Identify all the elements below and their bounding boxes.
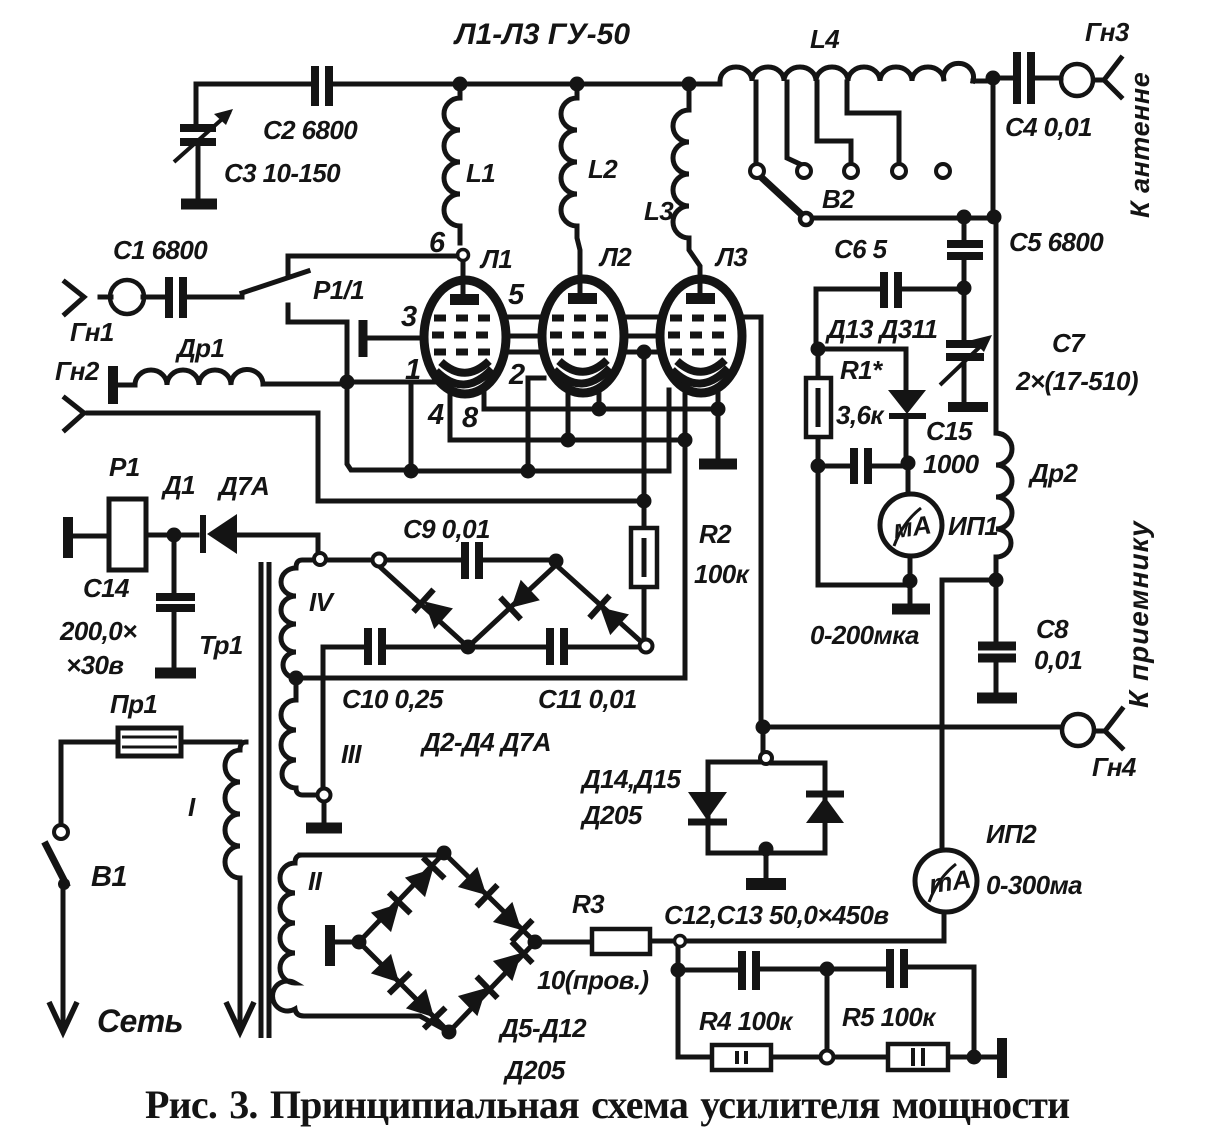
wire L2 pin4: [566, 390, 571, 440]
wire I winding top: [240, 742, 246, 750]
circle D14 box top: [760, 752, 772, 764]
node bridgeIV top right: [549, 554, 564, 569]
wire L4 tap4: [847, 82, 899, 164]
resistor R1: [806, 378, 831, 437]
connector Gn4: [1062, 714, 1094, 746]
wire L3 pin1: [667, 390, 672, 440]
svg-text:К приемнику: К приемнику: [1123, 520, 1154, 708]
transformer core: [261, 562, 269, 1038]
connector Gn1 circle: [110, 280, 144, 314]
capacitor C2: [315, 66, 329, 106]
svg-text:0-200мка: 0-200мка: [810, 620, 919, 650]
node y440 x685: [678, 433, 693, 448]
svg-text:К антенне: К антенне: [1125, 72, 1155, 218]
wire fuse row: [61, 740, 240, 745]
tube L2 envelope: [542, 279, 624, 393]
wire L2 pin8: [597, 390, 602, 409]
switch B2 contact 4: [892, 164, 906, 178]
tube L1 envelope: [424, 280, 506, 394]
wire R1 branch: [816, 349, 821, 466]
svg-text:С7: С7: [1052, 328, 1086, 358]
tube L3 envelope: [660, 279, 742, 393]
wire bridgeII TL arm: [359, 853, 444, 942]
node B2 line right: [987, 210, 1002, 225]
ground III winding: [306, 823, 342, 834]
svg-text:Д7А: Д7А: [217, 471, 269, 501]
wire Gn2 lower line: [88, 413, 318, 501]
svg-text:R5 100к: R5 100к: [842, 1002, 937, 1032]
terminal bridgeIV top left: [373, 554, 386, 567]
wire C12 row: [678, 967, 974, 970]
diode D1: [203, 514, 237, 554]
winding II: [273, 855, 304, 1016]
wire top anode bus: [196, 81, 993, 84]
meter IP2: [915, 850, 977, 912]
inductor L1: [444, 84, 460, 243]
svg-text:Д1: Д1: [161, 470, 195, 500]
inductor L2: [561, 84, 580, 294]
svg-text:R2: R2: [699, 519, 732, 549]
wire L3 cathode drop: [296, 390, 685, 678]
svg-text:II: II: [308, 866, 323, 896]
node C4 line top: [986, 71, 1001, 86]
svg-text:С14: С14: [83, 573, 130, 603]
wire D13 branch: [818, 349, 906, 462]
svg-text:0,01: 0,01: [1034, 645, 1082, 675]
wire R4 row: [678, 1055, 997, 1060]
node y471 x411: [404, 464, 419, 479]
wire D14 box: [708, 762, 825, 877]
svg-text:Др1: Др1: [175, 333, 224, 363]
wire C4 to Gn3: [993, 76, 1061, 81]
antenna fork Gn2: [65, 398, 84, 430]
svg-text:R3: R3: [572, 889, 605, 919]
wire L2 pin2: [528, 378, 544, 471]
grid terminal bar of L1: [359, 320, 368, 357]
wire D1 to bridge: [236, 535, 318, 553]
svg-text:С4 0,01: С4 0,01: [1005, 112, 1092, 142]
svg-text:С6 5: С6 5: [834, 234, 888, 264]
tube L3 grids: [668, 318, 734, 352]
svg-text:L2: L2: [588, 154, 618, 184]
capacitor C3 variable: [174, 109, 233, 204]
node R3 right: [675, 936, 686, 947]
svg-text:Р1/1: Р1/1: [313, 275, 364, 305]
wire L1 pin4: [450, 388, 685, 440]
node C12 left: [671, 963, 686, 978]
wire C8 branch: [994, 580, 999, 692]
svg-text:Л1-Л3 ГУ-50: Л1-Л3 ГУ-50: [453, 18, 630, 51]
terminal bar bridgeII left: [325, 925, 335, 966]
node top bus L3/L4: [682, 77, 697, 92]
wire bridgeIV slant 3: [556, 565, 646, 646]
wire bridgeII left terminal: [335, 940, 359, 945]
terminal IV top: [314, 553, 326, 565]
wire C10 left drop: [321, 647, 326, 786]
inductor Dr2: [996, 433, 1012, 580]
diode D3: [500, 579, 540, 619]
node bridgeII right: [528, 935, 543, 950]
terminal bar P1 left: [63, 517, 73, 558]
winding III: [281, 678, 317, 795]
tube L3 anode: [686, 293, 715, 304]
svg-text:Д13 Д311: Д13 Д311: [825, 314, 937, 344]
switch P1/1 arm: [242, 271, 308, 293]
antenna fork Gn3: [1094, 58, 1121, 97]
inductor L4: [720, 63, 974, 81]
node D14 box bottom: [759, 842, 774, 857]
svg-text:10(пров.): 10(пров.): [537, 965, 648, 995]
terminal bridgeIV bottom right: [640, 640, 653, 653]
svg-text:Л2: Л2: [598, 242, 632, 272]
diode D11: [457, 976, 497, 1016]
svg-text:Л3: Л3: [714, 242, 748, 272]
node bridgeII left: [352, 935, 367, 950]
svg-text:Л1: Л1: [479, 244, 512, 274]
svg-text:6: 6: [429, 227, 446, 259]
node Dr1 junction: [340, 375, 355, 390]
terminal bar Gn2: [108, 366, 118, 404]
svg-text:С5 6800: С5 6800: [1009, 227, 1104, 257]
ground IP1: [892, 604, 930, 615]
wire C6 left down: [814, 289, 819, 349]
node C15 right: [901, 456, 916, 471]
node B1 arm bottom: [58, 878, 70, 890]
resistor R4: [712, 1045, 771, 1070]
svg-text:Д205: Д205: [503, 1055, 566, 1085]
wire C3 branch: [196, 84, 198, 197]
wire grid bus row1 between tubes: [505, 315, 761, 320]
node bridgeIV bottom mid: [461, 640, 476, 655]
svg-text:Д2-Д4 Д7А: Д2-Д4 Д7А: [420, 727, 551, 757]
capacitor C14: [155, 597, 196, 673]
tube L2 grids: [550, 318, 616, 352]
svg-text:С9 0,01: С9 0,01: [403, 514, 490, 544]
wire grid row3 to R2: [318, 352, 644, 640]
wire grid input bar to tube L1: [368, 336, 424, 341]
connector Gn3: [1061, 64, 1093, 96]
svg-text:IV: IV: [309, 587, 336, 617]
node C6-C7: [957, 281, 972, 296]
wire grid bus row2 between tubes: [505, 334, 661, 339]
wire C7 branch: [962, 288, 967, 403]
svg-text:В1: В1: [91, 861, 127, 893]
capacitor C15: [854, 448, 868, 484]
wire P1/1 stub down: [288, 305, 347, 322]
winding I: [225, 750, 240, 1026]
diode D12: [492, 941, 532, 981]
svg-text:Р1: Р1: [109, 452, 140, 482]
diode D13: [888, 390, 926, 416]
wire III ground: [322, 802, 327, 822]
diode D2: [413, 590, 453, 630]
wire C14 branch: [172, 535, 177, 668]
capacitor C12: [742, 951, 756, 990]
svg-text:0-300ма: 0-300ма: [986, 870, 1082, 900]
ground pin8 bus: [699, 459, 737, 470]
node y440 x568: [561, 433, 576, 448]
wire pin6 to anode L1: [461, 261, 466, 294]
fuse Pr1: [118, 728, 181, 756]
wire C5 vertical: [964, 78, 993, 288]
svg-text:С1 6800: С1 6800: [113, 235, 208, 265]
wire L4 tap1: [754, 82, 759, 164]
tube L1 cathode: [436, 361, 492, 385]
wire y471 row: [411, 440, 669, 471]
wire P1 row: [74, 535, 197, 536]
switch B2 arm: [761, 177, 801, 214]
svg-text:III: III: [341, 739, 362, 769]
svg-text:R1*: R1*: [840, 355, 884, 385]
capacitor C11: [550, 628, 564, 665]
svg-text:ИП2: ИП2: [986, 819, 1037, 849]
node Dr2 bottom: [989, 573, 1004, 588]
diode D6: [404, 858, 444, 898]
LABELS: [453, 18, 630, 51]
svg-text:L3: L3: [644, 196, 674, 226]
ground D14 box: [746, 878, 786, 890]
svg-text:1000: 1000: [923, 449, 980, 479]
wire bridgeIV top row: [326, 558, 556, 563]
wire bridgeIV slant 1: [379, 566, 468, 647]
node top bus L2: [570, 77, 585, 92]
wire R3 to meter row: [683, 912, 944, 941]
meter IP1: [880, 494, 942, 556]
svg-text:R4 100к: R4 100к: [699, 1006, 794, 1036]
diode D4: [589, 596, 629, 636]
svg-text:L1: L1: [466, 158, 495, 188]
svg-text:В2: В2: [822, 184, 855, 214]
wire Dr1 row: [119, 384, 347, 385]
node R4-R5: [821, 1051, 834, 1064]
switch B2 contact 3: [844, 164, 858, 178]
svg-text:С3 10-150: С3 10-150: [224, 158, 341, 188]
node y409 x599: [592, 402, 607, 417]
wire bridgeII BR arm: [449, 942, 535, 1032]
wire L1 pin8: [484, 392, 718, 409]
terminal bar R5 right: [997, 1038, 1007, 1078]
terminal III bottom: [318, 789, 331, 802]
svg-text:Рис. 3. Принципиальная схема у: Рис. 3. Принципиальная схема усилителя м…: [145, 1082, 1069, 1127]
wire bridgeII TR arm: [444, 853, 535, 942]
wire x347 vertical: [347, 322, 411, 470]
antenna fork Gn4: [1095, 709, 1122, 748]
diode D5: [370, 893, 410, 933]
svg-text:2: 2: [508, 359, 525, 391]
svg-text:С2 6800: С2 6800: [263, 115, 358, 145]
diode D9: [370, 953, 410, 993]
capacitor C7 variable: [940, 335, 992, 407]
svg-text:3,6к: 3,6к: [836, 400, 885, 430]
node grid row3 x644: [637, 345, 652, 360]
wire C15 row: [818, 462, 908, 494]
svg-text:Д5-Д12: Д5-Д12: [498, 1013, 587, 1043]
wire R4 net mid column: [825, 969, 830, 1050]
node winding IV-III: [289, 671, 304, 686]
diode D15: [806, 794, 844, 823]
wire C1 to switch: [143, 295, 242, 300]
wire B2 pivot to C5 node: [812, 216, 994, 221]
svg-text:5: 5: [508, 279, 525, 311]
wire R3 row: [535, 941, 678, 942]
svg-text:Гн4: Гн4: [1092, 752, 1137, 782]
svg-text:С11 0,01: С11 0,01: [538, 684, 637, 714]
switch B1 contact: [54, 825, 68, 839]
tube L2 anode: [568, 293, 597, 304]
wire C6 row: [816, 287, 964, 292]
wire Dr2 feed: [994, 217, 999, 433]
capacitor C6: [884, 272, 898, 308]
diode D14: [688, 792, 727, 822]
diode D10: [405, 988, 445, 1028]
node top bus L1: [453, 77, 468, 92]
wire L4 tap3: [817, 82, 851, 164]
wire bridgeII BL arm: [359, 942, 449, 1032]
antenna fork Gn1: [65, 282, 111, 314]
svg-text:С8: С8: [1036, 614, 1069, 644]
switch B2 pivot: [800, 213, 812, 225]
node bridgeII bottom: [442, 1025, 457, 1040]
capacitor C13: [890, 949, 904, 988]
svg-text:Д14,Д15: Д14,Д15: [580, 764, 682, 794]
node P1-D1: [167, 528, 182, 543]
svg-text:200,0×: 200,0×: [59, 616, 137, 646]
node IP1 bottom: [903, 574, 918, 589]
wire L4 tap2: [787, 82, 802, 165]
svg-text:С10 0,25: С10 0,25: [342, 684, 444, 714]
node R1 bottom: [811, 459, 826, 474]
svg-text:2×(17-510): 2×(17-510): [1015, 366, 1138, 396]
svg-text:1: 1: [405, 354, 421, 386]
svg-text:L4: L4: [810, 24, 840, 54]
node Gn4 line left: [756, 720, 771, 735]
svg-text:С15: С15: [926, 416, 973, 446]
inductor Dr1: [135, 369, 263, 385]
arrow seti B1: [49, 1002, 77, 1032]
svg-text:Тр1: Тр1: [199, 630, 243, 660]
svg-text:Гн3: Гн3: [1085, 17, 1130, 47]
svg-text:100к: 100к: [694, 559, 751, 589]
wire y501 R2 row none: [0, 0, 3, 3]
svg-text:3: 3: [401, 301, 417, 333]
svg-text:8: 8: [462, 402, 479, 434]
svg-text:ИП1: ИП1: [948, 511, 998, 541]
diode D8: [492, 901, 532, 941]
tube L1 grids: [432, 318, 498, 352]
node y409 x718: [711, 402, 726, 417]
node y471 x528: [521, 464, 536, 479]
wire bridgeIV slant 2: [468, 565, 556, 647]
svg-text:С12,С13 50,0×450в: С12,С13 50,0×450в: [664, 900, 889, 930]
inductor L3: [673, 84, 700, 294]
wire bridgeIV bottom row: [323, 645, 639, 650]
svg-text:Гн2: Гн2: [55, 356, 100, 386]
diode D7: [457, 866, 497, 906]
switch B1 arm: [46, 845, 66, 884]
relay coil P1: [109, 499, 146, 570]
node C5 top: [957, 210, 972, 225]
wire II top to bridge: [300, 853, 444, 858]
svg-text:Др2: Др2: [1028, 458, 1078, 488]
wire grid bus row3 between tubes: [506, 350, 660, 355]
wire II bottom to bridge: [307, 1016, 449, 1032]
capacitor C5: [947, 244, 983, 256]
capacitor C8: [977, 646, 1017, 698]
wire Gn4 row: [763, 727, 1061, 752]
switch B2 contact 2: [797, 164, 811, 178]
capacitor C4: [1017, 52, 1031, 104]
svg-text:Д205: Д205: [580, 800, 643, 830]
switch B2 contact 5 spare: [936, 164, 950, 178]
resistor R3: [592, 929, 650, 954]
wire L1 cathode left: [347, 382, 442, 471]
svg-text:4: 4: [427, 399, 444, 431]
wire L3 pin8 ground: [716, 390, 721, 460]
wire P1/1 to pin6: [288, 256, 457, 274]
capacitor C10: [368, 628, 382, 665]
arrow seti I: [226, 1002, 254, 1032]
tube L3 cathode: [672, 360, 728, 384]
svg-text:Гн1: Гн1: [70, 317, 114, 347]
capacitor C9: [465, 542, 479, 579]
tube L1 anode: [450, 294, 479, 305]
svg-text:Сеть: Сеть: [97, 1003, 183, 1039]
pin 6 terminal of tube L1: [458, 250, 469, 261]
winding IV: [281, 560, 314, 678]
wire B1 column: [59, 742, 64, 823]
node y501 x644: [637, 494, 652, 509]
resistor R2: [631, 528, 657, 587]
resistor R5: [888, 1044, 948, 1070]
tube L2 cathode: [554, 360, 610, 384]
wire R4 net left column: [676, 945, 681, 1057]
wire B1 to seti: [61, 884, 66, 1026]
wire grid row1 right drop: [759, 317, 764, 727]
node D13/R1 top: [811, 342, 826, 357]
switch B2 contact 1: [750, 164, 764, 178]
svg-text:×30в: ×30в: [66, 650, 124, 680]
node bridgeII top: [437, 846, 452, 861]
node C12-C13: [820, 962, 835, 977]
node R5 right: [967, 1050, 982, 1065]
svg-text:Пр1: Пр1: [110, 689, 157, 719]
wire IP1 bottom loop: [818, 466, 910, 604]
wire R4 net right column: [972, 967, 977, 1057]
capacitor C1: [169, 277, 183, 318]
wire Dr2 to meter line: [942, 580, 996, 850]
